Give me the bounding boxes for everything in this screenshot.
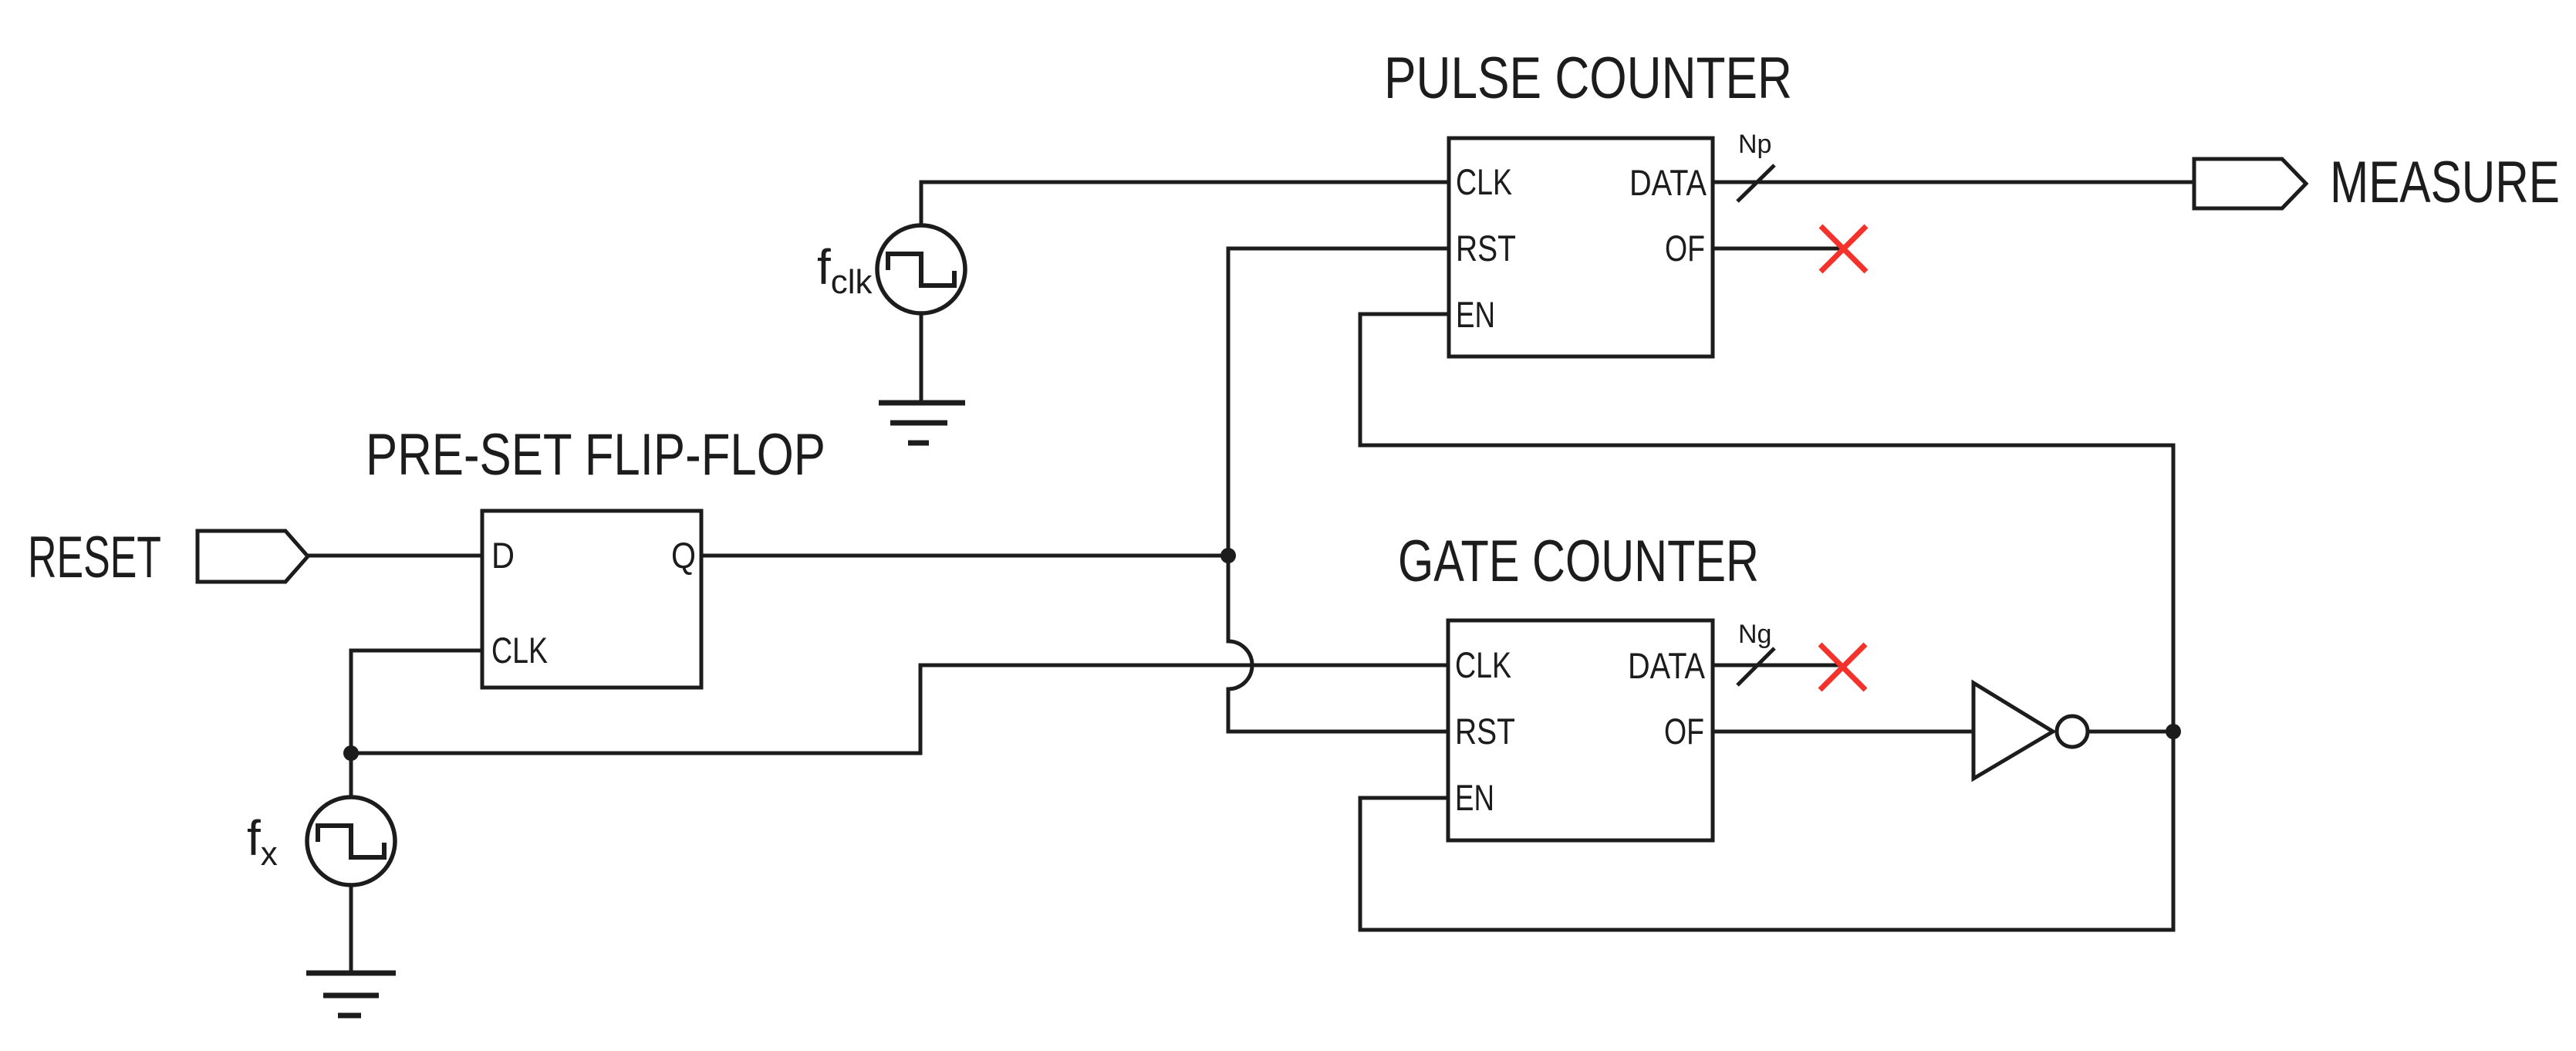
wire PULSE OF stub [1713,247,1847,251]
flip-flop U1 box [482,511,701,688]
port RESET flag [198,531,308,582]
junction node EN [2166,724,2181,739]
source fclk circle [877,225,965,313]
svg-text:CLK: CLK [1456,161,1512,202]
wire fclk stem bottom [920,313,923,403]
wire inverter out to node [2088,730,2173,734]
svg-text:MEASURE: MEASURE [2330,150,2560,215]
wire GATE DATA stub [1713,664,1847,667]
wire Q to PULSE RST [701,248,1449,556]
svg-text:Q: Q [671,535,696,576]
svg-text:RST: RST [1455,711,1515,752]
pulse counter U2 box [1449,138,1713,357]
svg-text:OF: OF [1664,711,1704,752]
bus slash Ng [1737,648,1774,685]
wire node Q to GATE RST with hop [1228,556,1448,732]
svg-text:DATA: DATA [1629,162,1707,203]
svg-text:RST: RST [1456,228,1516,269]
gate counter U3 box [1448,620,1713,840]
wire flip-flop CLK [351,651,482,753]
svg-text:PRE-SET FLIP-FLOP: PRE-SET FLIP-FLOP [366,422,825,488]
svg-text:RESET: RESET [28,525,161,590]
svg-text:OF: OF [1665,228,1705,269]
svg-text:D: D [491,535,515,576]
inverter bubble [2057,716,2088,747]
source fclk wave [888,254,954,286]
wire RESET to D [308,554,482,558]
wire f_clk to PULSE CLK [921,182,1449,225]
svg-text:GATE COUNTER: GATE COUNTER [1398,529,1759,594]
ground for fclk [879,403,965,443]
ground for fx [306,973,396,1016]
svg-text:Np: Np [1738,130,1771,159]
red X on pulse OF [1821,226,1866,272]
svg-text:CLK: CLK [491,630,548,671]
svg-text:EN: EN [1455,777,1494,818]
wire fx stem bottom [349,885,353,973]
svg-text:DATA: DATA [1628,645,1706,686]
red X on gate DATA [1820,644,1865,690]
svg-text:CLK: CLK [1455,644,1511,685]
svg-text:PULSE COUNTER: PULSE COUNTER [1384,46,1792,111]
inverter U4 [1973,683,2053,779]
svg-text:EN: EN [1456,294,1495,335]
source fx wave [318,826,384,857]
svg-text:Ng: Ng [1738,620,1771,649]
wire GATE EN feedback [1360,732,2173,930]
port MEASURE flag [2194,159,2306,208]
wire fx stem top [349,753,353,797]
source fx circle [307,797,395,885]
bus slash Np [1737,165,1774,201]
wire node fx to GATE CLK [351,665,1448,753]
wire GATE OF to inverter [1713,730,1973,734]
wire PULSE EN feedback [1360,314,2173,732]
wire PULSE DATA to MEASURE [1713,181,2194,184]
junction node Q [1220,548,1236,563]
junction node fx [343,745,359,761]
